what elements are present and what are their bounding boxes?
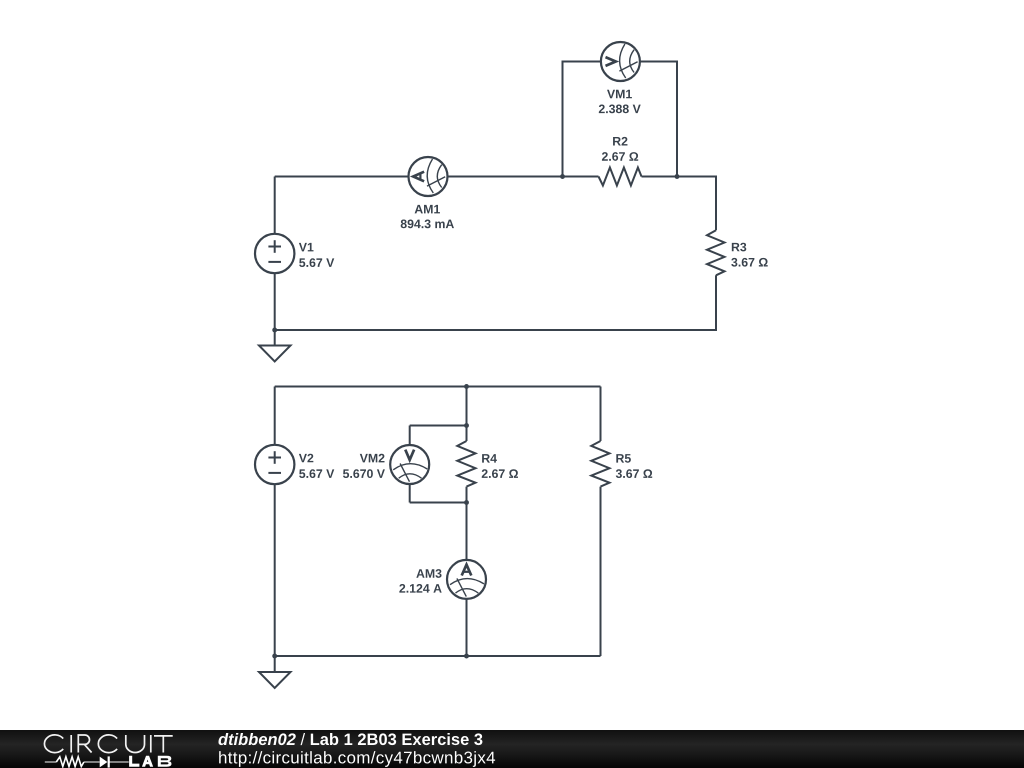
value label R3 3.67 ohm (731, 258, 767, 267)
label VM1 (607, 90, 632, 98)
value label R2 2.67 ohm (602, 152, 638, 161)
label R2 (613, 137, 627, 146)
logo letter C (44, 735, 63, 753)
footer title: Lab 1 2B03 Exercise 3 (311, 733, 483, 745)
node: junction bottom-left top circuit (ground) (272, 328, 277, 333)
ground (bottom circuit) (259, 672, 291, 688)
node: junction bottom-left bottom circuit (ground) (272, 654, 277, 659)
label R4 (482, 454, 497, 462)
value label VM1 2.388 V (599, 105, 641, 114)
value label R4 2.67 ohm (482, 469, 518, 478)
wire: VM2 vertical through meter (409, 426, 411, 503)
label VM2 (360, 454, 385, 463)
logo letter I (70, 735, 72, 753)
label R5 (616, 454, 631, 463)
node: junction bottom wire / AM3 branch (464, 654, 469, 659)
label V1 (299, 243, 314, 251)
value label AM1 894.3 mA (401, 220, 454, 229)
wire: VM1 branch (up, across through VM1, down) (563, 62, 678, 177)
logo letter T (154, 736, 173, 753)
resistor R4 (457, 441, 475, 487)
wire: VM2 bottom stub (410, 502, 467, 504)
node: junction V1 top branch / VM1 left (560, 174, 565, 179)
logo wordmark LAB: letter A (142, 756, 153, 767)
logo wordmark LAB: letter L (129, 756, 139, 767)
wire: middle branch upper (top wire to R4 top) (466, 387, 468, 442)
voltmeter VM2 (390, 445, 429, 484)
wire: R2 right to top-right corner, down to R3 top (642, 177, 717, 231)
wire: V2 branch left vertical (274, 387, 276, 657)
logo letter I (150, 735, 152, 753)
ammeter AM1 (409, 157, 448, 196)
label R3 (732, 243, 746, 252)
voltage source V2 (255, 445, 294, 484)
wire: ground stub top circuit (274, 330, 276, 346)
value label V1 5.67 V (299, 258, 334, 267)
voltmeter VM1 (601, 42, 640, 81)
logo resistor zigzag (56, 757, 84, 767)
wire top loop: V1 branch left vertical (274, 177, 276, 331)
CircuitLab logo (40, 730, 180, 768)
wire bottom circuit: top horizontal (275, 386, 601, 388)
wire: middle branch lower (R4 bottom through AM3 to bottom wire) (466, 487, 468, 656)
node: junction VM2 top / R4 branch (464, 423, 469, 428)
footer title: dtibben02 (italic) (218, 733, 295, 745)
label V2 (299, 454, 313, 463)
label AM3 (416, 569, 441, 578)
footer bar (0, 730, 1024, 768)
wire: bottom horizontal (275, 655, 601, 657)
logo letter C (98, 735, 117, 753)
resistor R3 (707, 230, 725, 275)
label AM1 (415, 205, 440, 213)
resistor R5 (591, 441, 609, 487)
node: junction VM1 right / R2 right (675, 174, 680, 179)
resistor R2 (599, 168, 642, 186)
logo wire segments (45, 761, 129, 763)
footer url line (219, 751, 495, 767)
voltage source V1 (255, 234, 294, 273)
logo letter R (78, 735, 91, 753)
wire: right branch lower (R5 bottom to bottom wire) (600, 487, 602, 656)
node: junction VM2 bottom / R4 branch (464, 500, 469, 505)
footer title: slash (301, 733, 306, 745)
node: junction top wire / R4 branch (464, 384, 469, 389)
ammeter AM3 (447, 560, 486, 599)
value label V2 5.67 V (299, 469, 334, 478)
logo wordmark LAB: letter B (158, 756, 172, 767)
value label AM3 2.124 A (399, 584, 441, 593)
wire: ground stub bottom circuit (274, 656, 276, 672)
logo letter U (126, 735, 145, 752)
value label VM2 5.670 V (343, 469, 385, 478)
footer text (0, 730, 1024, 768)
wire: R3 bottom to bottom-right corner and bottom wire to left (275, 275, 716, 330)
logo diode (100, 757, 108, 768)
ground (top circuit) (259, 346, 291, 362)
value label R5 3.67 ohm (616, 469, 652, 478)
wire: right branch upper (top wire to R5 top) (600, 387, 602, 442)
wire: VM2 top stub (410, 425, 467, 427)
wire: top horizontal from V1 corner through AM1 to R2 left (275, 176, 599, 178)
